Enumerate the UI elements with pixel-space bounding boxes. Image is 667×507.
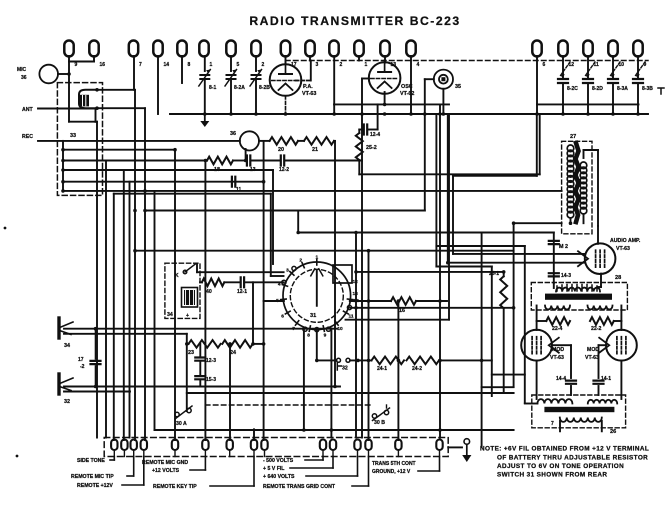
transformer 26 bottom winding (560, 418, 602, 422)
wire (230, 79, 232, 114)
svg-text:-2: -2 (80, 364, 85, 370)
capacitor 14-4 (566, 381, 576, 384)
svg-text:GROUND, +12 V: GROUND, +12 V (372, 469, 411, 475)
wire (93, 56, 95, 62)
wire (64, 386, 340, 388)
wire (452, 176, 454, 254)
svg-text:2: 2 (262, 62, 265, 68)
svg-text:34: 34 (64, 343, 70, 349)
junction (512, 306, 516, 310)
svg-text:11: 11 (348, 314, 353, 320)
wire (224, 281, 239, 283)
coil 36 (240, 131, 259, 150)
wire (570, 218, 572, 223)
svg-text:20: 20 (278, 147, 284, 153)
wire (448, 262, 585, 264)
wire (358, 56, 360, 61)
tube OSC VT-62 (369, 62, 401, 94)
svg-text:6: 6 (281, 314, 284, 320)
wire (525, 403, 538, 405)
wire (587, 56, 589, 79)
svg-text:SIDE TONE: SIDE TONE (77, 458, 105, 464)
wire (355, 233, 357, 438)
svg-text:2: 2 (340, 62, 343, 68)
wire (536, 361, 538, 399)
wire (583, 150, 585, 158)
svg-text:28: 28 (615, 275, 621, 281)
svg-text:8-2D: 8-2D (592, 86, 603, 92)
ground (204, 114, 206, 121)
wire (303, 329, 305, 431)
wire (425, 78, 434, 80)
junction (61, 148, 65, 152)
junction (302, 428, 306, 432)
resistor 25-1 (500, 276, 507, 308)
wire (285, 56, 287, 64)
speck (4, 227, 7, 230)
strip terminal 3 (131, 440, 137, 451)
junction (397, 359, 401, 363)
wire (255, 79, 257, 114)
wire (229, 344, 231, 440)
resistor 24-2 (407, 357, 440, 365)
junction (383, 112, 387, 116)
relay K2 (184, 290, 195, 305)
wire (68, 56, 70, 75)
svg-text:8-3B: 8-3B (642, 86, 653, 92)
svg-text:15-3: 15-3 (206, 377, 216, 383)
wire (598, 286, 601, 288)
wire (350, 300, 391, 302)
junction (284, 112, 288, 116)
svg-text:TRANS 5TH CONT: TRANS 5TH CONT (372, 461, 416, 467)
terminal loop 3 (305, 41, 314, 57)
capacitor 12-2 (281, 156, 284, 166)
relay box (57, 83, 102, 196)
tube MOD VT-63 right (606, 330, 637, 361)
junction (254, 112, 258, 116)
wire (386, 405, 388, 410)
wire (246, 281, 284, 283)
transformer 26 left winding (537, 399, 572, 403)
wire (435, 114, 437, 267)
wire (286, 160, 362, 162)
strip terminal 5 (172, 440, 178, 451)
svg-text:+ 640 VOLTS: + 640 VOLTS (263, 474, 295, 480)
svg-text:VT-63: VT-63 (550, 355, 564, 361)
wire (187, 392, 514, 394)
wire (637, 56, 639, 79)
wire (503, 272, 505, 276)
junction (502, 270, 506, 274)
strip terminal 14 (395, 440, 401, 451)
wire (114, 193, 271, 195)
transformer 27 core (576, 143, 579, 222)
wire (196, 264, 198, 272)
resistor 40 (202, 279, 224, 287)
wire (436, 245, 524, 247)
tube AUDIO AMP VT-63 (585, 243, 616, 274)
svg-text:13: 13 (353, 291, 359, 297)
capacitor 17-2 (95, 329, 97, 359)
wire (436, 266, 491, 268)
switch 31 outer (283, 262, 351, 330)
svg-text:SWITCH 31 SHOWN FROM REAR: SWITCH 31 SHOWN FROM REAR (497, 472, 607, 479)
switch 32 (337, 358, 341, 362)
wire (359, 173, 539, 175)
capacitor 12-4 (364, 125, 367, 135)
svg-text:16: 16 (100, 62, 106, 68)
junction (367, 299, 371, 303)
wire (562, 56, 564, 79)
svg-text:14-4: 14-4 (556, 376, 566, 382)
svg-text:P.A.: P.A. (303, 84, 313, 90)
svg-text:17: 17 (78, 357, 84, 363)
svg-text:34: 34 (167, 312, 173, 318)
svg-text:14-3: 14-3 (561, 273, 571, 279)
wire (334, 140, 335, 142)
transformer 28 left winding (545, 306, 570, 310)
svg-text:10: 10 (337, 326, 343, 332)
capacitor 14-1 (594, 381, 604, 384)
wire (253, 429, 255, 440)
terminal loop 10 (608, 40, 617, 56)
junction (315, 359, 319, 363)
svg-text:MOD: MOD (587, 347, 599, 353)
wire (233, 160, 245, 162)
transformer 28 box (531, 283, 627, 311)
strip terminal 7 (227, 440, 233, 451)
junction (636, 112, 640, 116)
junction (251, 342, 255, 346)
junction (535, 112, 539, 116)
strip terminal 10 (320, 440, 326, 450)
wire (63, 160, 207, 162)
junction (480, 359, 484, 363)
junction (173, 148, 177, 152)
terminal loop 5 (226, 41, 235, 57)
svg-text:22-4: 22-4 (552, 326, 562, 332)
wire (583, 214, 585, 223)
wire (64, 391, 130, 393)
junction (586, 112, 590, 116)
switch 30 A (175, 412, 179, 416)
wire (333, 56, 335, 114)
terminal loop 13 (380, 41, 389, 57)
junction (262, 180, 266, 184)
wire (553, 283, 555, 288)
wire (559, 421, 561, 431)
wire (199, 362, 201, 374)
wire (453, 253, 585, 255)
wire (359, 129, 362, 131)
svg-text:27: 27 (570, 134, 576, 140)
svg-text:35: 35 (455, 84, 461, 90)
switch 31 pointer (316, 271, 318, 306)
transformer 28 top winding (556, 288, 600, 292)
wire (368, 251, 370, 440)
wire (135, 250, 514, 252)
wire (113, 194, 115, 440)
strip terminal 8 (251, 440, 257, 450)
strip terminal 4 (141, 440, 147, 451)
junction (442, 112, 446, 116)
transformer 26 box (532, 395, 626, 428)
wire (350, 359, 372, 361)
wire (63, 181, 264, 183)
svg-text:OF BATTERY THRU ADJUSTABLE RES: OF BATTERY THRU ADJUSTABLE RESISTOR (497, 455, 648, 462)
terminal loop 17 (281, 41, 290, 57)
svg-text:5: 5 (237, 62, 240, 68)
wire (384, 56, 386, 63)
wire (330, 329, 332, 438)
wire (316, 330, 318, 361)
svg-text:21: 21 (312, 147, 318, 153)
junction (438, 112, 442, 116)
wire (155, 429, 514, 431)
transformer 26 core (544, 407, 614, 412)
svg-text:NOTE: +6V FIL OBTAINED FROM +1: NOTE: +6V FIL OBTAINED FROM +12 V TERMIN… (480, 446, 649, 453)
terminal loop 12 (558, 40, 567, 56)
wire (482, 386, 514, 388)
strip terminal 9 (261, 440, 267, 450)
svg-text:16: 16 (399, 308, 405, 314)
svg-text:REMOTE MIC TIP: REMOTE MIC TIP (71, 474, 114, 480)
junction (143, 189, 147, 193)
resistor 22-4 (546, 317, 570, 325)
svg-text:REMOTE TRANS GRID CONT: REMOTE TRANS GRID CONT (263, 484, 336, 490)
junction (354, 270, 358, 274)
junction (611, 112, 615, 116)
wire (492, 374, 525, 376)
svg-text:12: 12 (353, 279, 359, 285)
junction (354, 306, 358, 310)
wire (199, 381, 201, 387)
svg-text:RADIO TRANSMITTER BC-223: RADIO TRANSMITTER BC-223 (249, 14, 460, 28)
strip terminal 15 (436, 440, 442, 451)
svg-text:ADJUST TO 6V ON TONE OPERATION: ADJUST TO 6V ON TONE OPERATION (497, 463, 624, 470)
wire (204, 79, 206, 114)
wire (570, 386, 572, 395)
terminal loop 8 (177, 41, 186, 57)
wire (123, 170, 125, 440)
resistor 18 (207, 157, 233, 165)
speck (16, 455, 19, 458)
junction (397, 299, 401, 303)
svg-text:REMOTE MIC GND: REMOTE MIC GND (142, 460, 188, 466)
junction (229, 112, 233, 116)
junction (423, 112, 427, 116)
svg-text:MOD: MOD (552, 347, 564, 353)
transformer 28 right winding (588, 306, 613, 310)
lamp 35 (434, 70, 453, 89)
svg-text:7: 7 (551, 421, 554, 427)
strip terminal 12 (354, 440, 360, 450)
junction (333, 385, 337, 389)
wire (230, 56, 232, 71)
wire (298, 140, 304, 142)
svg-text:8: 8 (307, 332, 310, 338)
terminal loop 9 (64, 41, 73, 57)
wire (97, 107, 145, 109)
terminal loop 2 (251, 40, 260, 56)
svg-text:ANT: ANT (22, 107, 33, 113)
junction (61, 168, 65, 172)
wire (297, 211, 299, 233)
junction (367, 359, 371, 363)
junction (438, 299, 442, 303)
switch lever (185, 264, 196, 273)
wire (63, 190, 562, 192)
wire (63, 169, 273, 171)
svg-text:VT-62: VT-62 (400, 91, 414, 97)
capacitor M2 (549, 241, 559, 244)
terminal loop 14 (153, 41, 162, 57)
svg-text:8-1: 8-1 (209, 85, 216, 91)
strip terminal 13 (365, 440, 371, 450)
resistor 23 (189, 340, 221, 348)
wire (536, 56, 538, 114)
junction (446, 261, 450, 265)
wire (204, 161, 206, 441)
wire (259, 140, 270, 142)
wire (97, 89, 135, 91)
svg-text:12-3: 12-3 (206, 358, 216, 364)
resistor 20 (270, 137, 298, 145)
wire (96, 121, 98, 123)
junction (512, 221, 516, 225)
wire (64, 328, 337, 330)
svg-text:32: 32 (342, 366, 348, 372)
wire (145, 210, 425, 212)
svg-text:36: 36 (21, 75, 27, 81)
wire (285, 96, 287, 114)
wire (204, 56, 206, 71)
svg-text:1: 1 (210, 62, 213, 68)
variable capacitor 8-2B (252, 75, 261, 79)
wire (356, 271, 504, 273)
wire (553, 233, 555, 284)
svg-text:VT-63: VT-63 (616, 246, 630, 252)
wire (62, 141, 64, 191)
capacitor 14-3 (549, 273, 559, 276)
svg-text:REMOTE KEY TIP: REMOTE KEY TIP (153, 484, 197, 490)
svg-text:6: 6 (543, 62, 546, 68)
capacitor 12-3 (195, 358, 205, 361)
wire (263, 141, 265, 440)
svg-text:4: 4 (417, 62, 420, 68)
svg-text:12-2: 12-2 (279, 167, 289, 173)
junction (185, 342, 189, 346)
svg-text:REMOTE +12V: REMOTE +12V (77, 483, 113, 489)
switch 31 contact circles (303, 327, 307, 331)
wire (187, 343, 189, 345)
tube P.A. VT-63 (270, 64, 302, 96)
wire (362, 78, 369, 80)
variable capacitor 8-2A (227, 75, 236, 79)
svg-text:30 B: 30 B (374, 420, 385, 426)
wire (272, 170, 274, 264)
wire dashed bus (286, 60, 649, 62)
terminal loop 6 (532, 40, 541, 56)
terminal loop 2 (329, 41, 338, 57)
wire (599, 344, 607, 346)
svg-text:9: 9 (75, 62, 78, 68)
svg-text:REC: REC (22, 134, 33, 140)
resistor 16 (391, 297, 416, 305)
terminal loop 1 (199, 41, 208, 57)
svg-text:14: 14 (164, 62, 170, 68)
wire (377, 104, 379, 129)
jack 32 (57, 374, 60, 394)
variable capacitor 8-3A (608, 79, 618, 83)
wire (58, 73, 69, 75)
wire (174, 150, 176, 440)
junction (383, 103, 387, 107)
junction (61, 180, 65, 184)
resistor 25-2 (356, 133, 363, 160)
bus wire (334, 103, 449, 105)
resistor 24 (222, 340, 252, 348)
svg-text:18: 18 (214, 167, 220, 173)
svg-text:9: 9 (324, 332, 327, 338)
wire (105, 161, 107, 438)
svg-text:31: 31 (310, 313, 316, 319)
svg-text:7: 7 (139, 62, 142, 68)
wire (503, 308, 505, 393)
terminal loop 4 (406, 41, 415, 57)
capacitor 15-3 (195, 376, 205, 379)
resistor 22-2 (590, 317, 614, 325)
wire (447, 114, 449, 263)
svg-text:8-2A: 8-2A (234, 85, 245, 91)
wire (199, 344, 201, 356)
svg-text:26: 26 (610, 429, 616, 435)
junction (61, 159, 65, 163)
junction (203, 112, 207, 116)
wire (397, 301, 399, 440)
junction (330, 428, 334, 432)
svg-text:- 500 VOLTS: - 500 VOLTS (263, 458, 294, 464)
svg-text:25-1: 25-1 (489, 271, 499, 277)
junction (94, 327, 98, 331)
wire (63, 149, 175, 151)
bus wire (170, 113, 648, 115)
svg-text:12-1: 12-1 (237, 289, 247, 295)
bus wire (537, 103, 639, 105)
wire (309, 56, 311, 61)
relay K1 (79, 90, 97, 108)
svg-text:M 2: M 2 (559, 244, 568, 250)
wire (439, 104, 441, 437)
svg-text:40: 40 (206, 289, 212, 295)
wire (346, 319, 450, 321)
junction (332, 112, 336, 116)
svg-text:8-2C: 8-2C (567, 86, 578, 92)
terminal loop 16 (89, 41, 98, 57)
svg-text:AUDIO AMP.: AUDIO AMP. (610, 238, 641, 244)
switch 31 stub box (333, 265, 352, 283)
junction (296, 231, 300, 235)
variable capacitor 8-1 (200, 75, 209, 79)
svg-text:+: + (186, 313, 189, 319)
junction (409, 112, 413, 116)
junction (94, 385, 98, 389)
svg-text:30 A: 30 A (176, 421, 187, 427)
wire (442, 89, 444, 114)
svg-text:24-1: 24-1 (377, 366, 387, 372)
wire (536, 114, 538, 176)
